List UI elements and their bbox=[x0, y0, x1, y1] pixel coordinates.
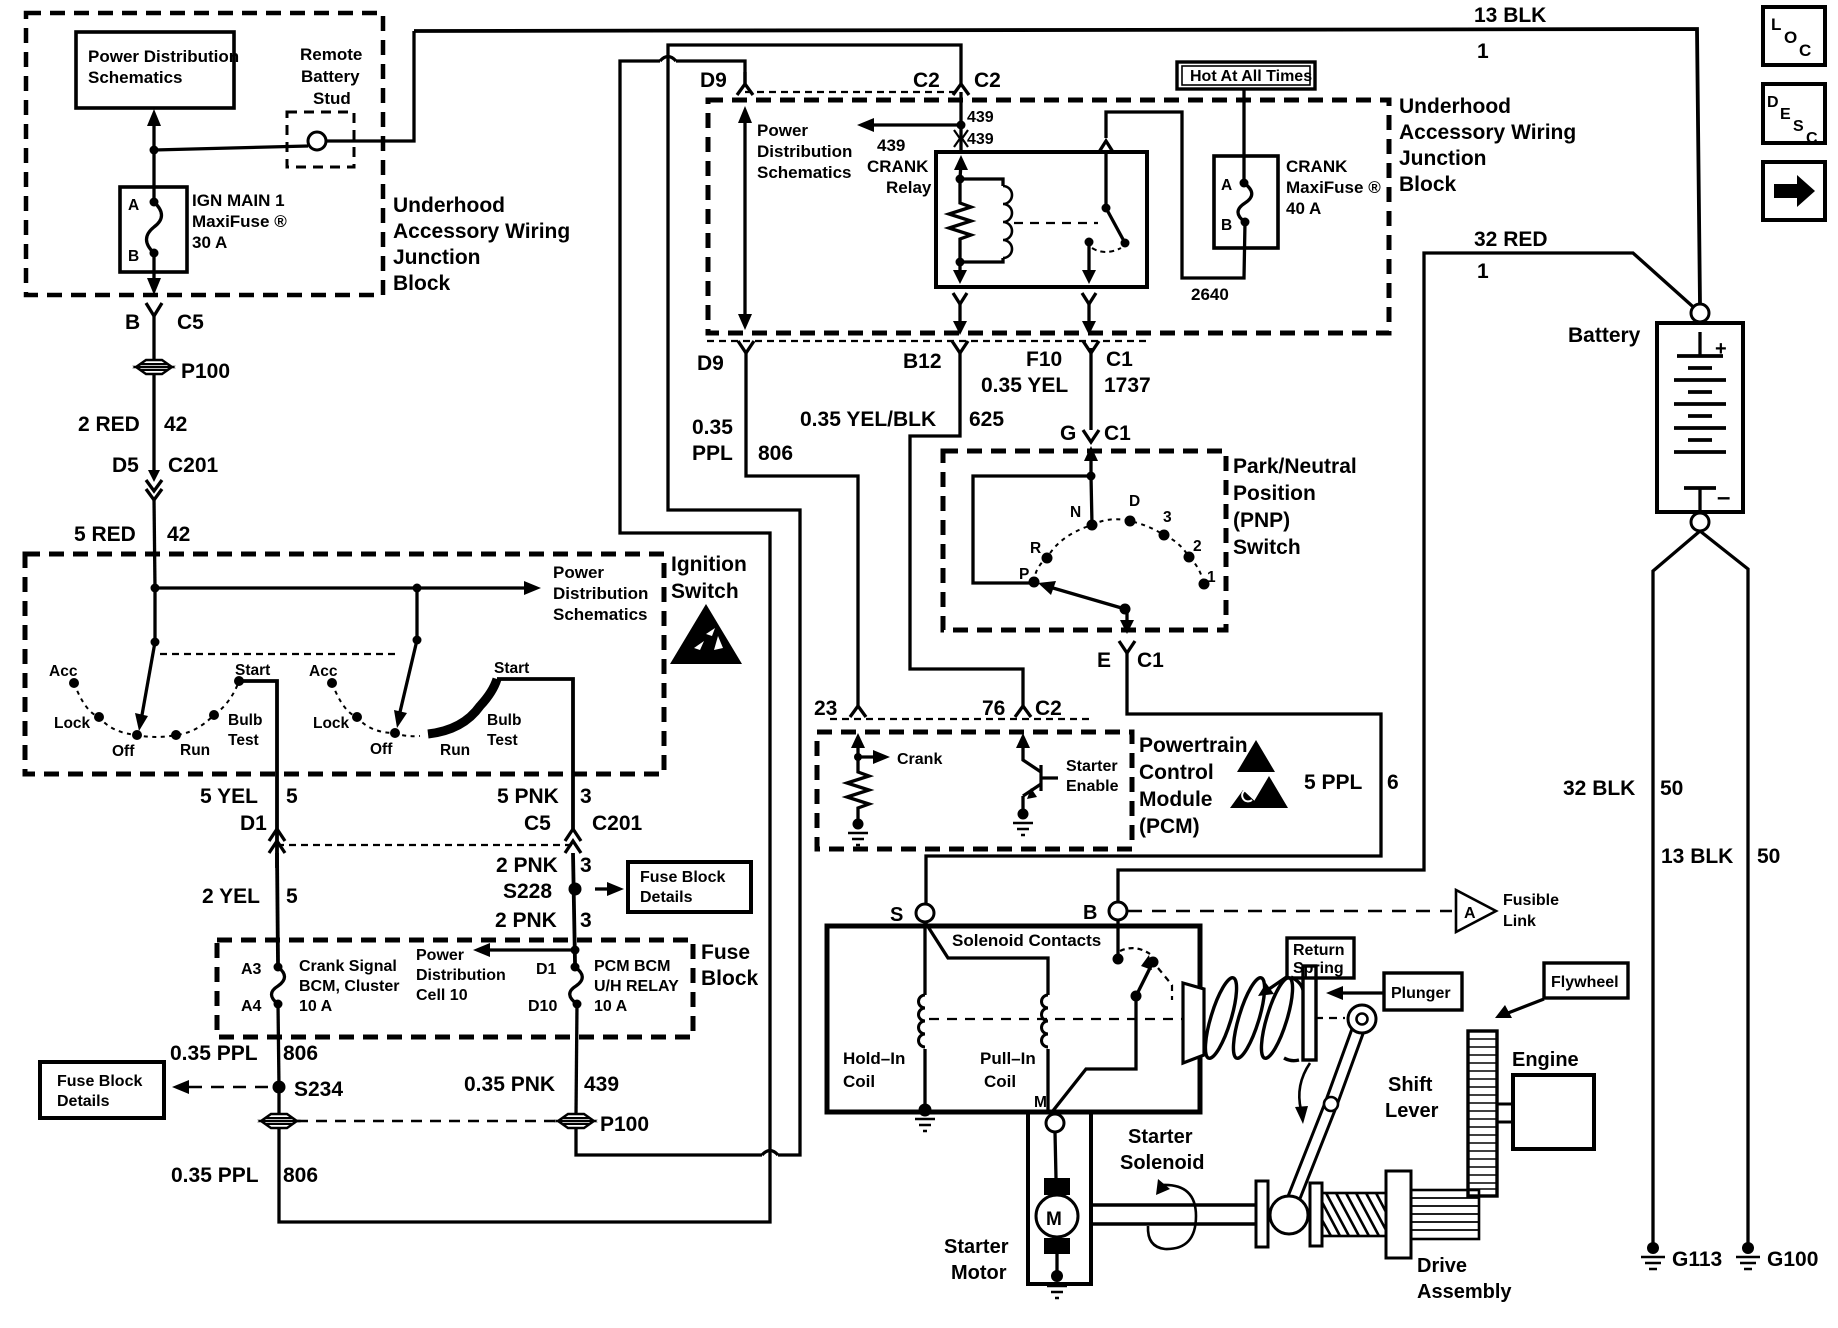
PCM ESD triangles bbox=[1230, 740, 1288, 808]
return spring label box bbox=[1287, 938, 1354, 978]
node: junction dot at ign main feed bbox=[150, 146, 159, 155]
svg-text:S228: S228 bbox=[503, 880, 552, 903]
plunger arrow bbox=[1326, 986, 1384, 1000]
svg-text:C1: C1 bbox=[1106, 348, 1133, 371]
svg-text:13 BLK: 13 BLK bbox=[1661, 845, 1733, 868]
svg-text:Park/Neutral: Park/Neutral bbox=[1233, 455, 1357, 478]
svg-text:Link: Link bbox=[1503, 913, 1536, 930]
svg-text:Fuse: Fuse bbox=[701, 941, 750, 964]
PNP contact arc (dashed) bbox=[1034, 519, 1204, 584]
svg-text:N: N bbox=[1070, 504, 1081, 521]
svg-text:1: 1 bbox=[1207, 569, 1216, 586]
PNP inner feed loop to P contact bbox=[973, 472, 1096, 584]
svg-text:Accessory Wiring: Accessory Wiring bbox=[393, 220, 570, 243]
drive assembly flange and spring bbox=[1310, 1171, 1512, 1303]
wire 0.35 PPL 806 below fuse A4 bbox=[170, 1004, 318, 1087]
power distribution schematics vertical arrow (in junction block) bbox=[738, 106, 852, 330]
svg-text:Start: Start bbox=[494, 660, 529, 677]
plunger body plate bbox=[1183, 983, 1204, 1063]
svg-text:Distribution: Distribution bbox=[553, 584, 648, 603]
flywheel ring gear bbox=[1468, 1031, 1497, 1196]
svg-text:Underhood: Underhood bbox=[1399, 95, 1511, 118]
svg-text:13 BLK: 13 BLK bbox=[1474, 4, 1546, 27]
engine bbox=[1497, 1049, 1594, 1149]
dashed arrow to fuse block details (left) bbox=[172, 1080, 268, 1094]
svg-text:Junction: Junction bbox=[1399, 147, 1487, 170]
wire: stud to 13 BLK riser bbox=[326, 31, 414, 141]
relay mechanical link (dashed) bbox=[1014, 222, 1098, 224]
svg-text:Accessory Wiring: Accessory Wiring bbox=[1399, 121, 1576, 144]
svg-text:32 RED: 32 RED bbox=[1474, 228, 1548, 251]
ignition wafer 1: contact arc bbox=[74, 681, 239, 737]
terminal S bbox=[890, 904, 934, 926]
svg-text:Battery: Battery bbox=[301, 67, 360, 86]
solenoid switch contacts bbox=[1052, 920, 1172, 1112]
wire from hot tag to crank maxifuse bbox=[1242, 89, 1245, 180]
svg-text:Ignition: Ignition bbox=[671, 553, 747, 576]
svg-text:Solenoid: Solenoid bbox=[1120, 1152, 1204, 1174]
wire 5 YEL 5 label bbox=[200, 785, 298, 808]
svg-text:40 A: 40 A bbox=[1286, 199, 1321, 218]
power distribution schematics box bbox=[76, 32, 239, 108]
svg-text:Plunger: Plunger bbox=[1391, 985, 1451, 1002]
powertrain control module box bbox=[817, 732, 1248, 849]
dashed grommet pair line S234-P100 bbox=[297, 1120, 558, 1123]
svg-text:42: 42 bbox=[167, 523, 190, 546]
crank relay box bbox=[936, 152, 1147, 287]
fuse block details box (right) bbox=[628, 862, 751, 912]
return spring coil bbox=[1199, 966, 1316, 1061]
svg-text:Power Distribution: Power Distribution bbox=[88, 47, 239, 66]
svg-text:Acc: Acc bbox=[49, 663, 78, 680]
PNP wiper arm bbox=[1038, 581, 1134, 634]
svg-text:O: O bbox=[1784, 28, 1797, 47]
svg-text:Distribution: Distribution bbox=[757, 142, 852, 161]
svg-text:A4: A4 bbox=[241, 998, 262, 1015]
svg-text:Return: Return bbox=[1293, 942, 1345, 959]
svg-text:C2: C2 bbox=[1035, 697, 1062, 720]
power distribution cell 10 arrow bbox=[416, 943, 580, 1004]
svg-text:Bulb: Bulb bbox=[487, 712, 521, 729]
svg-text:2 PNK: 2 PNK bbox=[495, 909, 557, 932]
relay switch bbox=[1082, 141, 1130, 284]
svg-text:Powertrain: Powertrain bbox=[1139, 734, 1248, 757]
ignition wafer 2: feed arm bbox=[394, 588, 422, 728]
svg-text:Block: Block bbox=[1399, 173, 1457, 196]
crank relay label bbox=[867, 157, 932, 197]
svg-text:U/H RELAY: U/H RELAY bbox=[594, 978, 679, 995]
svg-text:MaxiFuse ®: MaxiFuse ® bbox=[1286, 178, 1381, 197]
connector B12 bbox=[903, 341, 968, 373]
motor shaft bbox=[1091, 1181, 1268, 1247]
svg-text:Details: Details bbox=[640, 889, 693, 906]
fuse IGN MAIN 1 MaxiFuse 30 A bbox=[120, 150, 287, 272]
svg-text:S234: S234 bbox=[294, 1078, 343, 1101]
svg-text:Starter: Starter bbox=[1066, 758, 1118, 775]
wire 5 PNK 3 label bbox=[497, 785, 592, 808]
svg-text:5 PNK: 5 PNK bbox=[497, 785, 559, 808]
svg-text:Battery: Battery bbox=[1568, 324, 1641, 347]
wire 5 RED 42 bbox=[74, 498, 190, 588]
connector B / C5 bbox=[125, 303, 204, 359]
svg-text:Bulb: Bulb bbox=[228, 712, 262, 729]
svg-text:439: 439 bbox=[877, 136, 905, 155]
plunger label box bbox=[1384, 973, 1462, 1010]
connector F10 / C1 bbox=[981, 341, 1151, 397]
svg-text:3: 3 bbox=[580, 785, 592, 808]
svg-text:Assembly: Assembly bbox=[1417, 1281, 1512, 1303]
wire: fuse B down, exits box with arrow bbox=[147, 253, 161, 295]
svg-text:C2: C2 bbox=[974, 69, 1001, 92]
svg-text:Crank: Crank bbox=[897, 751, 942, 768]
svg-text:PCM BCM: PCM BCM bbox=[594, 958, 670, 975]
svg-text:Hot At All Times: Hot At All Times bbox=[1190, 68, 1312, 85]
svg-text:Engine: Engine bbox=[1512, 1049, 1579, 1071]
svg-text:P100: P100 bbox=[181, 360, 230, 383]
svg-text:Switch: Switch bbox=[671, 580, 739, 603]
svg-text:Switch: Switch bbox=[1233, 536, 1301, 559]
wire 13 BLK 50 to G100 bbox=[1661, 531, 1780, 1243]
fuse block (dashed box) bbox=[217, 940, 759, 1037]
svg-text:C: C bbox=[1799, 41, 1811, 60]
wire + power distribution arrow inside ignition switch bbox=[151, 563, 649, 624]
svg-text:IGN MAIN 1: IGN MAIN 1 bbox=[192, 191, 285, 210]
svg-text:806: 806 bbox=[283, 1164, 318, 1187]
terminal B bbox=[1083, 902, 1127, 924]
svg-text:Off: Off bbox=[112, 743, 135, 760]
svg-text:D: D bbox=[1129, 493, 1140, 510]
svg-text:C2: C2 bbox=[913, 69, 940, 92]
wire 0.35 YEL 1737 down to PNP G bbox=[1089, 348, 1092, 430]
wafer 2 thick run-start contact strip bbox=[428, 679, 497, 734]
svg-text:Lock: Lock bbox=[54, 715, 91, 732]
connector E / C1 bbox=[1097, 641, 1164, 672]
fuse CRANK MaxiFuse 40 A bbox=[1214, 156, 1381, 248]
svg-text:Run: Run bbox=[180, 742, 210, 759]
connector 76 / C2 bbox=[982, 697, 1062, 720]
svg-text:C5: C5 bbox=[524, 812, 551, 835]
svg-text:Cell 10: Cell 10 bbox=[416, 987, 468, 1004]
svg-text:D1: D1 bbox=[240, 812, 267, 835]
svg-text:Lever: Lever bbox=[1385, 1100, 1439, 1122]
svg-text:5: 5 bbox=[286, 885, 298, 908]
svg-text:50: 50 bbox=[1660, 777, 1683, 800]
svg-text:Schematics: Schematics bbox=[757, 163, 852, 182]
svg-text:Run: Run bbox=[440, 742, 470, 759]
svg-text:Schematics: Schematics bbox=[553, 605, 648, 624]
svg-text:3: 3 bbox=[580, 909, 592, 932]
svg-text:D9: D9 bbox=[697, 352, 724, 375]
svg-text:Test: Test bbox=[228, 732, 259, 749]
splice S234 bbox=[273, 1078, 344, 1101]
svg-text:E: E bbox=[1780, 106, 1791, 123]
ignition switch box bbox=[25, 553, 747, 774]
park/neutral position switch box bbox=[943, 451, 1357, 630]
PCM starter enable transistor bbox=[1013, 733, 1119, 835]
connector line C2 (thin dashed, top) bbox=[745, 91, 961, 93]
svg-text:Distribution: Distribution bbox=[416, 967, 506, 984]
flywheel arrow bbox=[1495, 999, 1544, 1018]
svg-text:Underhood: Underhood bbox=[393, 194, 505, 217]
ignition wafer 1: feed arm bbox=[135, 588, 160, 731]
fuse block details box (left) bbox=[40, 1062, 164, 1118]
svg-text:C1: C1 bbox=[1137, 649, 1164, 672]
svg-text:Hold–In: Hold–In bbox=[843, 1049, 905, 1068]
svg-text:MaxiFuse ®: MaxiFuse ® bbox=[192, 212, 287, 231]
svg-text:Block: Block bbox=[393, 272, 451, 295]
svg-text:–: – bbox=[1717, 484, 1730, 511]
svg-text:C201: C201 bbox=[592, 812, 643, 835]
svg-text:A: A bbox=[128, 197, 139, 214]
svg-text:Fuse Block: Fuse Block bbox=[640, 869, 725, 886]
LOC reference box bbox=[1763, 7, 1825, 65]
dashed wire B to fusible link bbox=[1128, 910, 1452, 913]
svg-text:10 A: 10 A bbox=[299, 998, 333, 1015]
svg-text:0.35 PNK: 0.35 PNK bbox=[464, 1073, 555, 1096]
svg-text:C201: C201 bbox=[168, 454, 219, 477]
svg-text:Block: Block bbox=[701, 967, 759, 990]
wire 439 into relay coil + left arrow bbox=[857, 92, 994, 155]
svg-text:10 A: 10 A bbox=[594, 998, 628, 1015]
svg-text:6: 6 bbox=[1387, 771, 1399, 794]
svg-text:50: 50 bbox=[1757, 845, 1780, 868]
svg-text:G100: G100 bbox=[1767, 1248, 1818, 1271]
svg-text:Power: Power bbox=[553, 563, 604, 582]
svg-text:CRANK: CRANK bbox=[1286, 157, 1348, 176]
svg-text:Lock: Lock bbox=[313, 715, 350, 732]
svg-text:1737: 1737 bbox=[1104, 374, 1151, 397]
svg-text:Power: Power bbox=[757, 121, 808, 140]
wire 2 YEL 5 bbox=[202, 853, 298, 963]
svg-text:Module: Module bbox=[1139, 788, 1213, 811]
arrow up to power distribution box bbox=[147, 109, 161, 150]
svg-text:Starter: Starter bbox=[944, 1236, 1009, 1258]
svg-text:2640: 2640 bbox=[1191, 285, 1229, 304]
svg-text:2: 2 bbox=[1193, 538, 1202, 555]
wire 13 BLK top run bbox=[414, 4, 1700, 305]
wire: junction to remote battery stud bbox=[154, 146, 308, 150]
svg-text:S: S bbox=[1793, 118, 1804, 135]
ground G100 bbox=[1736, 1242, 1818, 1271]
starter solenoid label bbox=[1120, 1126, 1204, 1174]
ignition switch ESD triangle bbox=[670, 604, 742, 664]
connector D9 (top) bbox=[700, 69, 753, 95]
svg-text:0.35 YEL: 0.35 YEL bbox=[981, 374, 1068, 397]
svg-text:D10: D10 bbox=[528, 998, 557, 1015]
svg-text:Motor: Motor bbox=[951, 1262, 1007, 1284]
arrow reference box bbox=[1763, 162, 1825, 220]
ground G113 bbox=[1641, 1242, 1722, 1271]
svg-text:L: L bbox=[1771, 15, 1781, 34]
svg-text:A: A bbox=[1464, 905, 1476, 922]
svg-text:42: 42 bbox=[164, 413, 187, 436]
wire 0.35 YEL/BLK 625 from B12 to PCM 76 bbox=[800, 351, 1023, 706]
svg-text:Fuse Block: Fuse Block bbox=[57, 1073, 142, 1090]
wire 32 BLK 50 to G113 bbox=[1563, 531, 1700, 1243]
svg-text:439: 439 bbox=[967, 131, 994, 148]
svg-text:Remote: Remote bbox=[300, 45, 362, 64]
connector D1 at C201 bbox=[240, 812, 285, 853]
svg-text:32 BLK: 32 BLK bbox=[1563, 777, 1635, 800]
svg-text:Pull–In: Pull–In bbox=[980, 1049, 1036, 1068]
svg-text:Drive: Drive bbox=[1417, 1255, 1467, 1277]
svg-text:3: 3 bbox=[1163, 509, 1172, 526]
svg-text:A3: A3 bbox=[241, 961, 262, 978]
svg-text:B: B bbox=[1083, 902, 1097, 924]
svg-text:Acc: Acc bbox=[309, 663, 338, 680]
svg-text:Flywheel: Flywheel bbox=[1551, 974, 1619, 991]
hold-in coil bbox=[843, 922, 935, 1131]
wafer 2 start output wire bbox=[497, 679, 573, 830]
connector D9 (lower) bbox=[697, 341, 754, 375]
svg-text:C5: C5 bbox=[177, 311, 204, 334]
flywheel label box bbox=[1544, 963, 1628, 998]
svg-text:5 PPL: 5 PPL bbox=[1304, 771, 1363, 794]
svg-text:PPL: PPL bbox=[692, 442, 733, 465]
svg-text:5 YEL: 5 YEL bbox=[200, 785, 258, 808]
rotation arrow bbox=[1148, 1179, 1196, 1249]
starter motor bracket bbox=[1028, 1112, 1091, 1284]
dashed gang line between switch wafers bbox=[160, 653, 400, 655]
svg-text:Power: Power bbox=[416, 947, 464, 964]
underhood accessory wiring junction block (left) bbox=[26, 13, 570, 295]
svg-text:Solenoid Contacts: Solenoid Contacts bbox=[952, 931, 1101, 950]
underhood accessory wiring junction block (middle) bbox=[708, 95, 1576, 333]
svg-text:G113: G113 bbox=[1672, 1248, 1722, 1271]
pull-in coil bbox=[925, 922, 1048, 1110]
svg-text:D9: D9 bbox=[700, 69, 727, 92]
svg-text:Fusible: Fusible bbox=[1503, 892, 1559, 909]
svg-text:D1: D1 bbox=[536, 961, 557, 978]
svg-text:2 PNK: 2 PNK bbox=[496, 854, 558, 877]
svg-text:Spring: Spring bbox=[1293, 960, 1344, 977]
connector G / C1 bbox=[1060, 422, 1131, 476]
svg-text:P: P bbox=[1019, 566, 1029, 583]
connector D5 / C201 bbox=[112, 454, 219, 500]
DESC reference box bbox=[1763, 84, 1825, 147]
svg-text:(PNP): (PNP) bbox=[1233, 509, 1290, 532]
svg-text:Coil: Coil bbox=[984, 1072, 1016, 1091]
connector C2 marks bbox=[913, 69, 1001, 95]
connector C5 / C201 bbox=[524, 812, 643, 853]
svg-text:B: B bbox=[128, 248, 139, 265]
wire 0.35 PNK 439 below fuse D10 bbox=[464, 1004, 619, 1114]
svg-text:R: R bbox=[1030, 540, 1041, 557]
relay coil branch: coil bbox=[960, 179, 1012, 262]
dashed link plunger to shift lever bbox=[1315, 1017, 1345, 1019]
terminal M bbox=[1034, 1094, 1064, 1132]
wire 5 PPL 6 from E to solenoid S bbox=[926, 653, 1399, 904]
wire 32 RED from battery + bbox=[1118, 228, 1700, 903]
svg-text:A: A bbox=[1221, 177, 1232, 194]
svg-text:M: M bbox=[1046, 1209, 1062, 1230]
wafer 2 contacts bbox=[309, 660, 529, 759]
wire 439 from P100 to relay riser (with hop over 806 wire) bbox=[576, 45, 961, 1155]
grommet P100 (left chain) bbox=[136, 360, 230, 383]
fuse: PCM BCM U/H RELAY 10 A bbox=[528, 958, 679, 1015]
grommet below S234 bbox=[261, 1087, 297, 1128]
svg-text:806: 806 bbox=[758, 442, 793, 465]
svg-text:0.35 PPL: 0.35 PPL bbox=[170, 1042, 258, 1065]
svg-text:Test: Test bbox=[487, 732, 518, 749]
svg-text:Starter: Starter bbox=[1128, 1126, 1193, 1148]
svg-text:Position: Position bbox=[1233, 482, 1316, 505]
svg-text:B12: B12 bbox=[903, 350, 942, 373]
svg-text:2 RED: 2 RED bbox=[78, 413, 140, 436]
svg-text:E: E bbox=[1097, 649, 1111, 672]
connector line C201 (dashed) bbox=[277, 844, 573, 846]
svg-text:439: 439 bbox=[967, 109, 994, 126]
drive assembly ball joint bbox=[1270, 1196, 1308, 1234]
svg-text:D: D bbox=[1767, 94, 1779, 111]
svg-text:CRANK: CRANK bbox=[867, 157, 929, 176]
starter motor bbox=[944, 1132, 1078, 1298]
svg-text:0.35 YEL/BLK: 0.35 YEL/BLK bbox=[800, 408, 936, 431]
svg-text:439: 439 bbox=[584, 1073, 619, 1096]
splice S228 bbox=[503, 880, 624, 903]
svg-text:Enable: Enable bbox=[1066, 778, 1119, 795]
svg-text:C1: C1 bbox=[1104, 422, 1131, 445]
svg-text:B: B bbox=[1221, 217, 1232, 234]
svg-text:Schematics: Schematics bbox=[88, 68, 183, 87]
wafer 1 start output wire bbox=[239, 681, 277, 868]
svg-text:P100: P100 bbox=[600, 1113, 649, 1136]
svg-text:B: B bbox=[125, 311, 140, 334]
svg-text:Coil: Coil bbox=[843, 1072, 875, 1091]
wire 2 PNK 3 (upper) bbox=[496, 853, 592, 963]
svg-text:Control: Control bbox=[1139, 761, 1214, 784]
wire 2 PNK 3 (lower) label bbox=[495, 909, 592, 932]
starter solenoid box bbox=[827, 926, 1200, 1112]
shift lever arrow (curved) bbox=[1295, 1063, 1310, 1124]
svg-text:3: 3 bbox=[580, 854, 592, 877]
svg-text:5 RED: 5 RED bbox=[74, 523, 136, 546]
connector line below junction block (thin dashed) bbox=[707, 340, 1150, 342]
svg-text:1: 1 bbox=[1477, 260, 1489, 283]
svg-text:806: 806 bbox=[283, 1042, 318, 1065]
hot at all times tag bbox=[1177, 62, 1315, 89]
wire 2 RED 42 bbox=[78, 374, 187, 470]
svg-text:23: 23 bbox=[814, 697, 837, 720]
svg-text:Off: Off bbox=[370, 741, 393, 758]
connector 23 bbox=[814, 697, 866, 720]
PNP contacts bbox=[1019, 493, 1216, 590]
shift lever bbox=[1293, 1005, 1439, 1200]
fusible link A bbox=[1456, 890, 1559, 932]
PCM crank input resistor bbox=[847, 733, 942, 845]
svg-text:G: G bbox=[1060, 422, 1076, 445]
svg-text:76: 76 bbox=[982, 697, 1005, 720]
svg-text:D5: D5 bbox=[112, 454, 139, 477]
svg-text:0.35 PPL: 0.35 PPL bbox=[171, 1164, 259, 1187]
svg-text:30 A: 30 A bbox=[192, 233, 227, 252]
svg-text:Start: Start bbox=[235, 662, 270, 679]
svg-text:Shift: Shift bbox=[1388, 1074, 1433, 1096]
svg-text:M: M bbox=[1034, 1094, 1047, 1111]
svg-text:F10: F10 bbox=[1026, 348, 1062, 371]
return spring arrow bbox=[1258, 976, 1288, 996]
svg-text:Junction: Junction bbox=[393, 246, 481, 269]
relay outputs through junction block bottom bbox=[953, 293, 1096, 335]
wafer 1 contacts bbox=[49, 662, 270, 760]
svg-text:Details: Details bbox=[57, 1093, 110, 1110]
wire 0.35 PPL 806 from D9 to PCM 23 bbox=[692, 351, 858, 706]
ignition wafer 2: contact arc bbox=[332, 683, 420, 736]
svg-text:Crank Signal: Crank Signal bbox=[299, 958, 397, 975]
svg-text:625: 625 bbox=[969, 408, 1004, 431]
grommet P100 (fuse block chain) bbox=[558, 1113, 649, 1136]
svg-text:5: 5 bbox=[286, 785, 298, 808]
